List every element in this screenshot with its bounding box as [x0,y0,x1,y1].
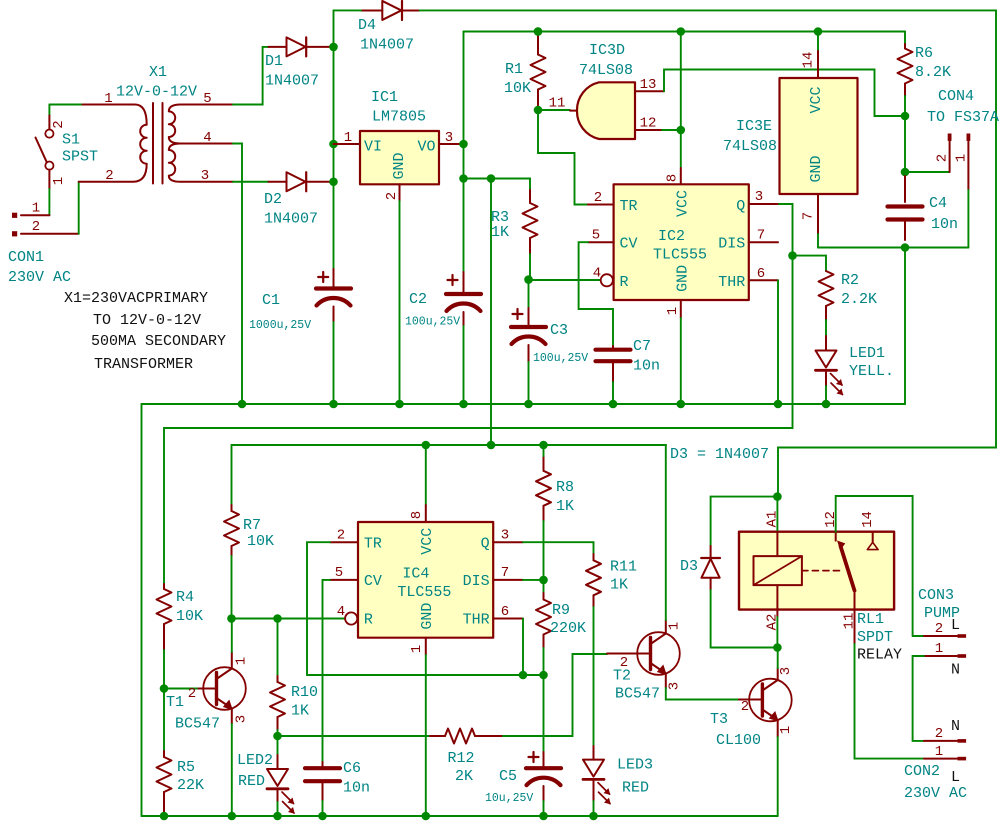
pin 3 of T1 (emitter) [231,709,233,725]
LED LED2 red [277,736,279,755]
diode D1 1N4007 [269,46,287,48]
svg-text:8: 8 [665,174,681,182]
wire - +5V rail [464,31,906,33]
svg-text:D4: D4 [358,17,376,34]
svg-text:R7: R7 [243,517,261,534]
svg-text:C6: C6 [343,760,361,777]
svg-text:CV: CV [364,573,382,590]
transformer X1 primary winding [79,105,147,182]
node - branch to IC4 supply [487,174,496,183]
pin 14 of IC3E (VCC) [817,32,819,52]
connector CON4 pin 2 [948,134,952,141]
svg-text:L: L [951,769,960,786]
wire - IC3E GND to C4 bottom net [817,234,819,248]
svg-text:IC1: IC1 [371,89,398,106]
wire - lower +5V rail [232,444,667,446]
relay RL1 body [739,532,894,610]
pin 1 of T3 (emitter) [777,720,779,737]
svg-text:2: 2 [105,168,113,184]
svg-text:S1: S1 [62,132,80,149]
wire - IC3D pin 12 to IC2 output column [662,129,681,131]
svg-text:IC3D: IC3D [589,42,625,59]
resistor R3 1K [529,190,531,203]
svg-text:1: 1 [935,641,943,657]
svg-text:C2: C2 [409,291,427,308]
svg-text:SPDT: SPDT [857,629,893,646]
svg-text:R8: R8 [556,479,574,496]
node - R7 bottom junction [227,614,236,623]
pin 4 of IC4 (R) with inversion circle [345,612,357,624]
wire - LED3 to lower ground rail [593,801,595,816]
svg-text:2: 2 [384,192,400,200]
node - R3/C3/reset junction [524,275,533,284]
pin 2 of IC1 (GND) [399,184,401,201]
node - relay coil A2 / T3 collector [773,643,782,652]
svg-text:1: 1 [665,307,681,315]
svg-text:IC3E: IC3E [736,118,772,135]
node - centre tap on ground rail [238,400,247,409]
svg-text:11: 11 [549,96,566,112]
wire - IC1 VO up to +5V rail and down to C2 [463,32,465,273]
svg-text:1N4007: 1N4007 [264,211,318,228]
wire - T2 emitter to T3 base [666,688,739,700]
svg-text:C4: C4 [929,195,947,212]
node - T1 base junction [160,684,169,693]
svg-text:GND: GND [419,603,436,630]
wire - S1 to CON1 pin 1 [48,189,50,215]
wire - T2 collector up to lower +5V rail [665,445,667,620]
wire - T1 emitter to lower ground rail [231,724,233,816]
wire - LED2 node to R12 [278,735,431,737]
node - IC1 GND on ground rail [395,400,404,409]
node - R10/LED2/R12 junction [273,732,282,741]
pin 12 of IC3D [635,129,662,131]
svg-text:1: 1 [409,645,425,653]
svg-text:N: N [951,718,960,735]
wire - R11 down to LED3 [593,607,595,746]
svg-text:220K: 220K [550,620,586,637]
svg-text:1: 1 [104,91,112,107]
wire - IC3D pin 13 to R6 bottom node [664,70,905,117]
svg-text:12V-0-12V: 12V-0-12V [116,84,197,101]
wire - R12 to T2 base [503,654,607,736]
relay RL1 switch lever [841,546,855,591]
svg-text:T1: T1 [166,694,184,711]
relay RL1 linkage dashes [802,570,841,572]
pin 5 of IC2 (CV) [588,241,614,243]
pin 4 of IC2 (R) with inversion circle [601,274,613,286]
wire - R9 bottom to timing node [543,648,545,675]
svg-text:R2: R2 [841,272,859,289]
capacitor C6 10n [322,762,324,768]
pin 1 of T2 (collector) [665,620,667,634]
capacitor C3 100u,25V [528,280,530,308]
node - sensor input node below R6 [901,112,910,121]
LED LED1 yellow [825,336,827,351]
connector CON2 pin 2 [924,740,957,742]
wire - T1 collector up to R7 [231,619,233,653]
svg-text:T2: T2 [613,668,631,685]
svg-text:1: 1 [344,130,352,146]
svg-text:3: 3 [501,528,509,544]
svg-text:1: 1 [954,154,970,162]
svg-text:1: 1 [667,622,683,630]
voltage regulator IC1 LM7805 [360,131,439,184]
wire - C4 bottom horizontal net [818,247,968,249]
svg-text:3: 3 [755,189,763,205]
pin 7 of IC2 (DIS) unconnected [749,241,778,243]
svg-text:1: 1 [935,744,943,760]
resistor R10 1K [277,619,279,677]
pin 7 of IC3E (GND) [817,194,819,234]
transistor T1 BC547 [199,688,217,690]
svg-text:12: 12 [640,116,657,132]
svg-text:230V AC: 230V AC [8,269,71,286]
svg-text:2: 2 [935,726,943,742]
pin 1 of IC4 (GND) [425,638,427,655]
wire - R7 node to IC4 reset pin [232,618,345,620]
pin 8 of IC2 (VCC) [680,168,682,184]
svg-text:GND: GND [391,152,408,179]
svg-text:LED3: LED3 [617,757,653,774]
transistor T3 CL100 [739,699,762,701]
svg-text:10u,25V: 10u,25V [485,792,533,805]
svg-text:2: 2 [188,686,196,702]
svg-text:2: 2 [51,120,67,128]
relay RL1 coil [754,556,802,585]
svg-text:C5: C5 [499,768,517,785]
pin 1 of IC1 [334,143,361,145]
transformer X1 secondary winding lower (pins 4-3) [169,144,233,182]
svg-text:5: 5 [203,91,211,107]
svg-text:IC4: IC4 [402,566,429,583]
svg-text:LM7805: LM7805 [372,109,426,126]
capacitor C5 10u,25V [543,752,545,766]
svg-text:2: 2 [741,699,749,715]
svg-text:R5: R5 [177,759,195,776]
wire - CON3 pin 1 down to CON2 pin 2 [913,656,924,741]
node - relay coil A1 supply [773,492,782,501]
svg-text:THR: THR [463,612,490,629]
svg-text:100u,25V: 100u,25V [533,352,588,365]
svg-text:7: 7 [501,565,509,581]
connector CON1 pin 1 [12,213,17,218]
connector CON2 pin 1 [924,758,957,760]
svg-text:D1: D1 [265,53,283,70]
svg-text:TRANSFORMER: TRANSFORMER [94,356,193,373]
wire - CON4 pin 1 down to C4 bottom net [967,190,969,248]
svg-text:LED1: LED1 [849,345,885,362]
wire - C2 to ground rail [463,326,465,404]
svg-text:SPST: SPST [62,149,98,166]
wire - D4 cathode along top and right edge down to relay feed [420,10,996,496]
wire - R4 to T1 base node [163,650,165,689]
pin 14 of RL1 (NC contact) [872,532,874,542]
wire - D3 cathode down to A2 node [711,590,778,648]
svg-text:BC547: BC547 [615,686,660,703]
svg-text:THR: THR [718,274,745,291]
wire - lower ground rail [142,815,778,817]
timer IC2 TLC555 [614,184,749,300]
svg-text:R1: R1 [505,61,523,78]
svg-text:1K: 1K [291,703,309,720]
svg-text:4: 4 [203,130,211,146]
svg-text:TLC555: TLC555 [397,584,451,601]
wire - junction to IC2 reset pin [529,279,601,281]
resistor R1 10K [537,35,539,55]
wire - +5V branch across to R3 [464,179,531,191]
node - C2 on ground rail [459,400,468,409]
svg-text:2.2K: 2.2K [841,291,877,308]
wire - C7 to ground rail [612,382,614,404]
node - C3 on ground rail [524,400,533,409]
wire - relay supply node to D3 [711,497,778,546]
wire - top rail from +12V column to D4 [334,9,362,11]
capacitor C4 10n [904,176,906,202]
wire - C5 to lower ground rail [543,801,545,816]
svg-text:1: 1 [234,657,250,665]
pin 1 of T1 (collector) [231,652,233,669]
wire - IC2 Q output down to lower section [164,204,793,584]
svg-text:TR: TR [620,198,638,215]
node - R8 top branch [539,441,548,450]
transformer X1 core [153,103,163,184]
svg-text:TO FS37A: TO FS37A [927,109,999,126]
svg-text:7: 7 [801,212,817,220]
svg-text:TLC555: TLC555 [653,247,707,264]
node - R1 bottom junction [534,106,543,115]
svg-text:7: 7 [757,228,765,244]
pin 3 of T3 (collector) [777,668,779,680]
node - LED2 on rail [273,812,282,821]
wire - timing node horizontal [307,674,544,676]
diode D4 1N4007 [361,9,382,11]
svg-text:C7: C7 [633,338,651,355]
svg-text:14: 14 [801,52,817,69]
svg-text:X1=230VACPRIMARY: X1=230VACPRIMARY [64,290,208,307]
wire - +5V rail down to IC2 VCC pin 8 [680,32,682,169]
svg-text:D3: D3 [680,558,698,575]
svg-text:1000u,25V: 1000u,25V [249,319,311,332]
wire - +12V column joining D1/D2 cathodes, D4 anode, IC1 VI and C1 [333,10,335,269]
pin 3 of IC2 (Q) [749,203,779,205]
node - C5 on rail [539,812,548,821]
node - IC4 GND on rail [422,812,431,821]
diode D3 flyback [710,546,712,558]
svg-text:R10: R10 [291,684,318,701]
svg-text:1K: 1K [556,498,574,515]
svg-text:230V AC: 230V AC [904,785,967,802]
svg-text:R12: R12 [448,750,475,767]
connector CON3 pin 2 [913,635,924,637]
connector CON4 pin 1 [967,134,971,141]
wire - R3 to C3 node [529,254,531,280]
wire - CON1 pin 2 up to transformer primary pin 2 [78,182,80,234]
svg-text:10n: 10n [633,358,660,375]
capacitor C1 1000u,25V [333,269,335,287]
wire - C3 to ground rail [528,362,530,404]
wire - IC2 CV pin to C7 [579,242,613,346]
svg-text:2K: 2K [455,768,473,785]
svg-text:RED: RED [622,780,649,797]
svg-text:Q: Q [481,536,490,553]
node - timing node at THR wire [519,671,528,680]
svg-text:2: 2 [32,219,40,235]
svg-text:14: 14 [860,511,876,528]
svg-text:1K: 1K [610,577,628,594]
wire - TR pin to timing node [307,542,330,675]
resistor R12 2K [430,735,445,737]
node - +5V feed from upper section [487,441,496,450]
svg-text:8.2K: 8.2K [915,64,951,81]
LED LED3 red [593,746,595,760]
svg-text:T3: T3 [710,711,728,728]
pin 12 of RL1 (common) [835,532,837,541]
node - IC2 GND on ground rail [677,400,686,409]
wire - relay pin 11 down to CON2 pin 1 [855,644,925,759]
svg-text:4: 4 [337,604,345,620]
wire - T1 base wire [164,688,199,690]
svg-text:10K: 10K [247,533,274,550]
pin A1 of RL1 [776,497,778,532]
connector CON1 pin 2 [12,231,17,236]
svg-text:TO 12V-0-12V: TO 12V-0-12V [93,312,201,329]
switch S1 SPST [36,105,54,190]
svg-text:R11: R11 [610,559,637,576]
capacitor C7 10n [612,346,614,350]
wire - IC1 GND pin down to ground rail [399,201,401,404]
svg-text:74LS08: 74LS08 [723,138,777,155]
svg-text:RL1: RL1 [857,611,884,628]
node - D1 cathode junction [329,43,338,52]
svg-text:DIS: DIS [463,573,490,590]
wire - +5V down to lower section rail [490,179,492,446]
svg-text:R4: R4 [176,589,194,606]
wire - transformer pin 4 centre tap to ground rail [233,144,242,405]
node - C7 on ground rail [609,400,618,409]
svg-text:500MA SECONDARY: 500MA SECONDARY [91,333,226,350]
svg-text:10K: 10K [176,608,203,625]
svg-text:1N4007: 1N4007 [265,73,319,90]
svg-text:Q: Q [736,198,745,215]
svg-text:VCC: VCC [419,528,436,555]
wire - R10 bottom to LED2 node [277,730,279,736]
node - R1 top on +5V rail [534,27,543,36]
node - R10 top branch [273,614,282,623]
svg-text:1: 1 [778,726,794,734]
svg-text:6: 6 [501,604,509,620]
resistor R7 10K [231,445,233,505]
node - VO junction [459,140,468,149]
svg-text:22K: 22K [177,777,204,794]
svg-text:R9: R9 [552,602,570,619]
svg-text:DIS: DIS [718,236,745,253]
wire - IC2 THR pin 6 down to ground rail [777,280,779,404]
svg-text:A1: A1 [765,511,781,528]
svg-text:BC547: BC547 [175,716,220,733]
svg-text:VCC: VCC [808,86,825,113]
svg-text:6: 6 [757,266,765,282]
wire - AC mains from switch to transformer primary pin 1 [49,104,82,106]
node - R1 on +5V rail [534,27,543,36]
svg-text:2: 2 [935,154,951,162]
wire - Q branch to R2 [793,256,827,271]
svg-text:RELAY: RELAY [857,647,902,664]
svg-text:YELL.: YELL. [849,363,894,380]
wire - R6 bottom to sensor node [904,96,906,116]
wire - C6 to lower ground rail [322,801,324,816]
wire - relay pin 12 to CON3 pin 2 [836,496,913,636]
svg-text:3: 3 [234,715,250,723]
svg-text:R: R [620,274,629,291]
svg-text:TR: TR [364,536,382,553]
svg-text:GND: GND [808,155,825,182]
pin A2 of RL1 [776,585,778,617]
svg-text:1: 1 [32,201,40,217]
svg-text:11: 11 [842,613,858,630]
node - T1 emitter on rail [228,812,237,821]
svg-text:C1: C1 [262,292,280,309]
svg-text:4: 4 [593,266,601,282]
svg-text:2: 2 [935,621,943,637]
node - R5 on lower ground rail [160,812,169,821]
node - IC1 VI junction [329,140,338,149]
node - C4 bottom junction [901,243,910,252]
pin 11 of RL1 (NO contact) [854,591,856,644]
svg-text:10K: 10K [504,80,531,97]
svg-text:IC2: IC2 [658,228,685,245]
wire - LED1 to ground rail [825,386,827,404]
pin 8 of IC4 (VCC) [425,445,427,505]
svg-text:R6: R6 [915,45,933,62]
resistor R4 10K [163,584,165,589]
AND gate IC3D 74LS08 [577,82,635,139]
svg-text:1: 1 [51,177,67,185]
svg-text:100u,25V: 100u,25V [405,316,460,329]
svg-text:74LS08: 74LS08 [579,62,633,79]
pin 3 of T2 (emitter) [665,674,667,689]
wire - sensor node down to CON4 pin 2 branch [904,116,906,172]
wire - T3 emitter down to lower ground rail [777,737,779,816]
svg-text:VI: VI [364,139,382,156]
svg-text:N: N [951,662,960,679]
node - THR on ground rail [774,400,783,409]
pin 1 of IC2 (GND) [680,300,682,318]
svg-text:X1: X1 [149,64,167,81]
svg-text:10n: 10n [343,780,370,797]
svg-text:3: 3 [445,130,453,146]
timer IC4 TLC555 [358,522,493,638]
pin 11 of IC3D [570,110,577,112]
transformer X1 secondary winding upper (pins 5-4) [169,105,233,144]
wire - R8 bottom to DIS junction [543,521,545,580]
svg-text:8: 8 [409,511,425,519]
svg-text:CON2: CON2 [904,763,940,780]
svg-text:L: L [951,617,960,634]
wire - C4 bottom down to ground rail [904,248,906,405]
transistor T2 BC547 [607,653,651,655]
svg-text:LED2: LED2 [237,752,273,769]
svg-text:GND: GND [675,265,692,292]
resistor R11 1K [593,554,595,560]
svg-text:D2: D2 [264,191,282,208]
svg-text:CV: CV [620,236,638,253]
svg-text:CON3: CON3 [918,587,954,604]
pin 2 of IC4 (TR) [330,541,358,543]
node - D2 cathode junction [329,177,338,186]
svg-text:1N4007: 1N4007 [360,37,414,54]
svg-text:VCC: VCC [675,190,692,217]
